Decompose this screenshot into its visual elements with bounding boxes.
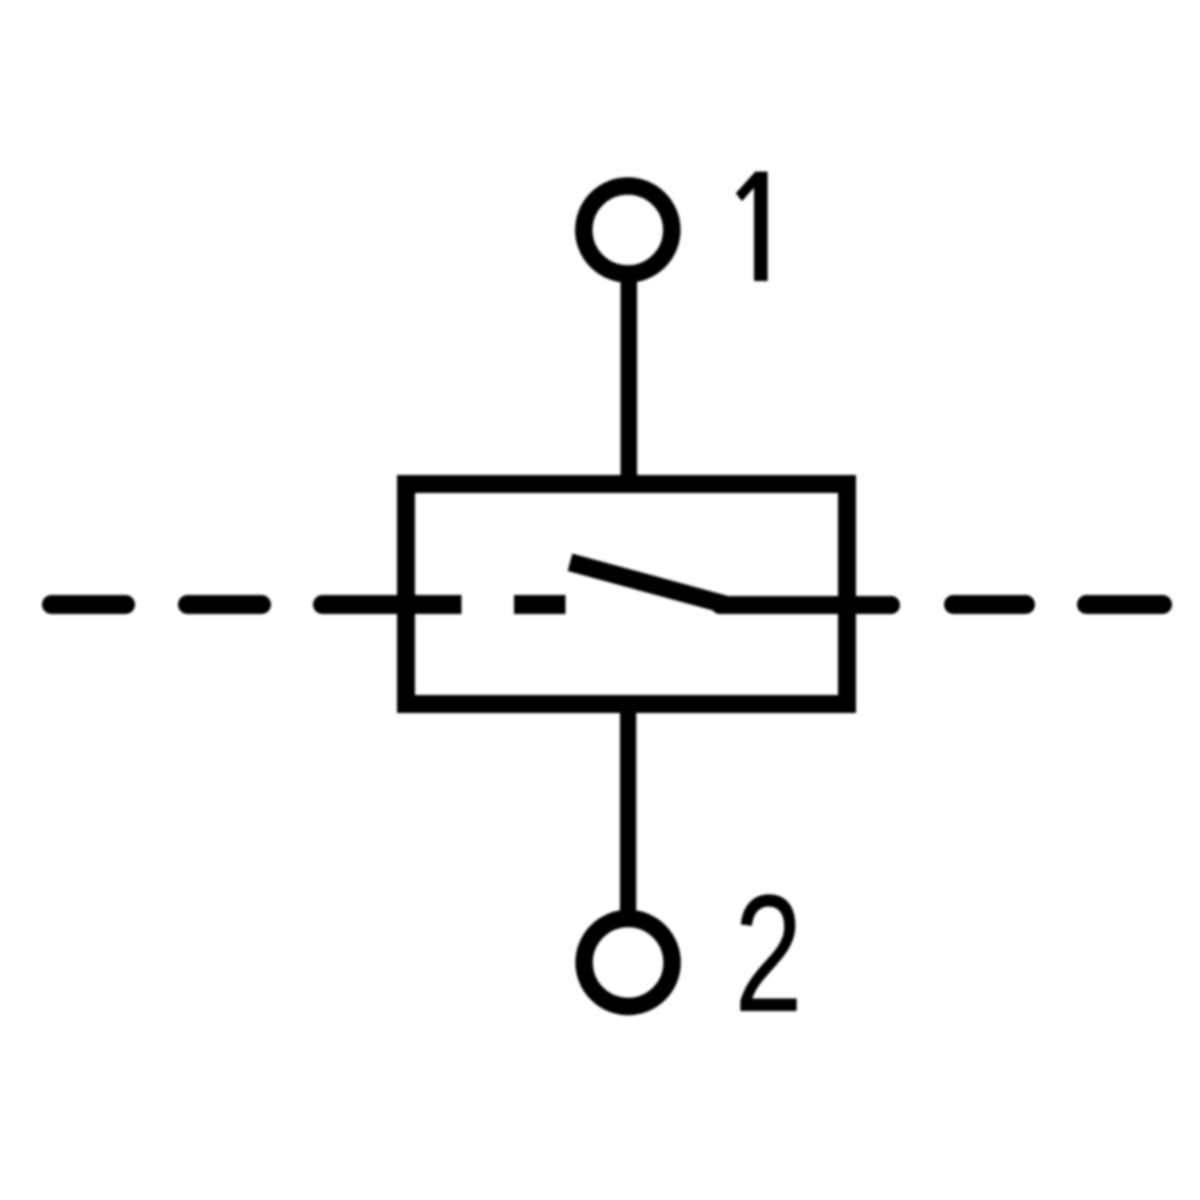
actuator dashed line (right dash 2)	[1087, 595, 1163, 614]
actuator dashed line (left dash 1)	[52, 595, 126, 614]
terminal circle 1	[584, 186, 672, 274]
wire: box to terminal 2	[620, 702, 636, 916]
pin label 2	[734, 861, 803, 1047]
fixed contact lead (from left box wall)	[402, 595, 462, 614]
wire: terminal 1 to box	[621, 268, 638, 492]
actuator dashed line (right dash 1)	[954, 595, 1026, 614]
terminal circle 2	[584, 919, 672, 1007]
switch enclosure box	[406, 484, 847, 704]
svg-text:2: 2	[734, 861, 803, 1047]
actuator dashed line (left dash 2)	[188, 595, 262, 614]
switch blade (diagonal, open contact)	[570, 562, 727, 605]
pin label 1	[736, 172, 768, 281]
linkage short dash inside box	[514, 595, 566, 614]
actuator dashed line (left dash 3)	[323, 595, 397, 614]
switch blade horizontal arm to right wall	[720, 596, 891, 614]
